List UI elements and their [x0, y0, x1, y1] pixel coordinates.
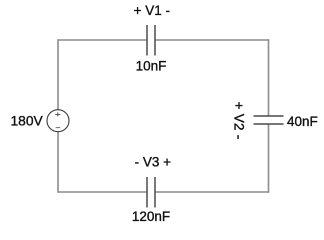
wire right vertical lower	[268, 124, 270, 193]
svg-text:40nF: 40nF	[287, 114, 318, 129]
svg-text:10nF: 10nF	[136, 58, 167, 73]
svg-text:- V3 +: - V3 +	[135, 154, 172, 169]
wire left vertical upper	[57, 39, 59, 110]
wire left vertical lower	[57, 132, 59, 193]
source minus terminal	[56, 127, 61, 129]
svg-text:180V: 180V	[10, 114, 43, 129]
voltage source V 180V	[47, 110, 69, 132]
wire top-right segment	[155, 39, 269, 41]
svg-text:+ V2 -: + V2 -	[232, 102, 247, 140]
capacitor C3 120nF (bottom)	[147, 177, 155, 208]
wire bottom-right segment	[155, 191, 269, 193]
svg-text:+ V1 -: + V1 -	[134, 3, 170, 18]
wire bottom-left segment	[58, 191, 147, 193]
source plus terminal	[55, 112, 60, 116]
svg-text:120nF: 120nF	[132, 209, 170, 224]
wire top-left segment	[58, 39, 147, 41]
capacitor C2 40nF (right)	[254, 116, 284, 124]
wire right vertical upper	[268, 39, 270, 116]
capacitor C1 10nF (top)	[147, 25, 155, 56]
